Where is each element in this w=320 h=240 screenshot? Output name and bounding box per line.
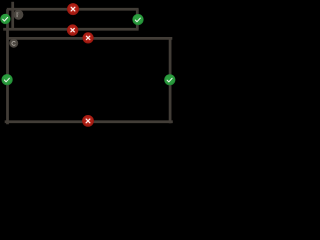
wire W2 second horizontal (3, 28, 138, 31)
red X badge on wire W3 (83, 32, 94, 43)
node F (13, 10, 23, 20)
wire right long vertical (169, 38, 172, 123)
red X badge on wire W4 (82, 115, 94, 127)
wire left long vertical (6, 9, 9, 124)
green check badge top-left (0, 14, 10, 24)
red X badge on wire W1 (67, 3, 79, 15)
green check badge on left long vertical (2, 74, 13, 85)
red X badge on wire W2 (67, 24, 78, 35)
wire right vertical of top loop (136, 9, 139, 29)
wire F stem vertical (11, 2, 14, 31)
wire W4 bottom horizontal (5, 120, 173, 123)
node C (9, 39, 18, 48)
wire W1 top horizontal (7, 8, 139, 11)
wire W3 third horizontal (7, 37, 173, 40)
green check badge on right vertical of top loop (132, 14, 143, 25)
green check badge on right long vertical (164, 74, 175, 85)
